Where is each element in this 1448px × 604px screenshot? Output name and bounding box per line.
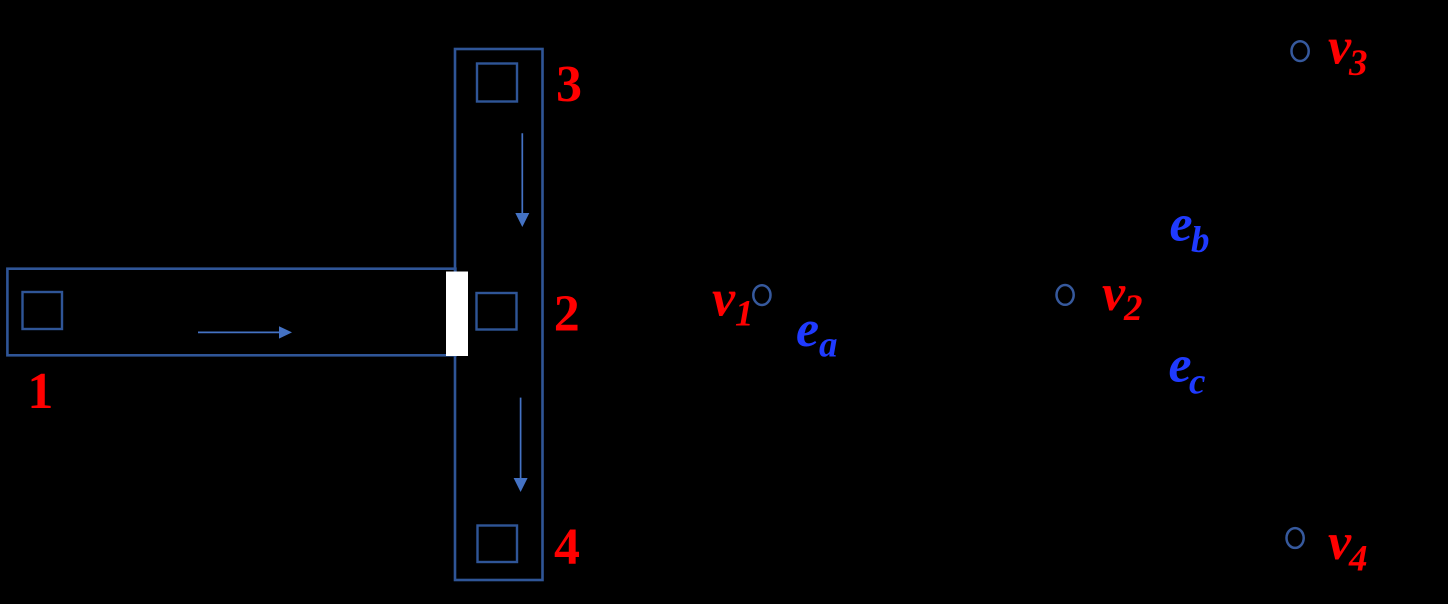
svg-text:1: 1	[735, 294, 754, 335]
svg-text:v: v	[712, 271, 736, 328]
svg-text:a: a	[819, 325, 838, 366]
svg-text:3: 3	[1348, 43, 1368, 84]
svg-text:b: b	[1191, 220, 1210, 261]
svg-text:e: e	[1170, 196, 1193, 253]
svg-text:2: 2	[554, 286, 580, 343]
svg-text:c: c	[1189, 361, 1205, 402]
svg-text:e: e	[796, 301, 819, 358]
svg-text:2: 2	[1123, 288, 1143, 329]
svg-text:1: 1	[27, 363, 53, 420]
svg-text:3: 3	[556, 56, 582, 113]
svg-text:4: 4	[554, 519, 580, 576]
svg-text:4: 4	[1348, 538, 1368, 579]
svg-text:v: v	[1102, 265, 1126, 322]
